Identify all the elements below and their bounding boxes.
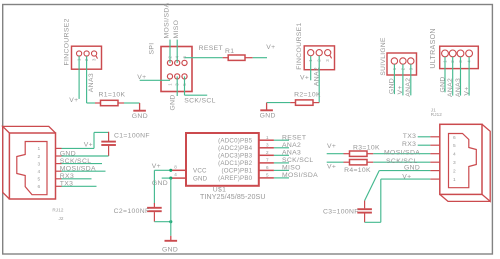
svg-text:V+: V+ (266, 44, 275, 51)
svg-text:7: 7 (266, 158, 269, 163)
svg-text:RX3: RX3 (60, 173, 74, 180)
svg-text:R4=10K: R4=10K (344, 167, 371, 174)
svg-text:MOSI/SDA: MOSI/SDA (384, 150, 420, 157)
svg-text:C1=100NF: C1=100NF (114, 133, 150, 140)
svg-text:SPI: SPI (149, 42, 156, 54)
svg-text:(OCP)PB1: (OCP)PB1 (221, 168, 252, 175)
svg-text:8: 8 (174, 164, 177, 169)
svg-text:ULTRASON: ULTRASON (430, 28, 437, 68)
svg-text:V+: V+ (397, 85, 404, 94)
svg-text:RJ12: RJ12 (431, 112, 442, 117)
svg-text:TX3: TX3 (403, 133, 417, 140)
svg-text:GND: GND (389, 78, 396, 94)
svg-text:3: 3 (266, 142, 269, 147)
svg-text:C2=100NF: C2=100NF (114, 208, 150, 215)
svg-text:1: 1 (266, 135, 269, 140)
svg-text:MOSI/SDA: MOSI/SDA (163, 2, 170, 38)
svg-text:FINCOURSE1: FINCOURSE1 (296, 22, 303, 69)
svg-text:MISO: MISO (282, 165, 301, 172)
svg-text:R1=10K: R1=10K (99, 92, 126, 99)
svg-text:MOSI/SDA: MOSI/SDA (282, 172, 318, 179)
svg-text:R3=10K: R3=10K (353, 145, 380, 152)
svg-text:ANA3: ANA3 (88, 73, 95, 92)
svg-text:SCK/SCL: SCK/SCL (184, 97, 216, 104)
svg-text:V+: V+ (137, 74, 146, 81)
svg-text:(AREF)PB0: (AREF)PB0 (218, 175, 252, 182)
svg-text:2: 2 (38, 154, 41, 160)
svg-text:ANA3: ANA3 (282, 149, 301, 156)
svg-text:2: 2 (266, 150, 269, 155)
svg-text:(ADC3)PB3: (ADC3)PB3 (218, 153, 252, 160)
svg-text:V+: V+ (463, 86, 470, 95)
svg-text:6: 6 (38, 184, 41, 190)
svg-text:VCC: VCC (193, 168, 207, 175)
svg-text:3: 3 (38, 161, 41, 167)
svg-text:4: 4 (453, 152, 456, 158)
svg-text:R2=10K: R2=10K (294, 92, 321, 99)
svg-text:RJ12: RJ12 (52, 208, 63, 213)
svg-text:4: 4 (174, 172, 177, 177)
svg-text:V+: V+ (327, 143, 336, 150)
svg-text:C3=100NF: C3=100NF (323, 209, 359, 216)
svg-text:5: 5 (453, 143, 456, 149)
svg-text:(ADC2)PB4: (ADC2)PB4 (218, 145, 252, 152)
svg-text:1: 1 (38, 146, 41, 152)
svg-text:GND: GND (60, 150, 76, 157)
svg-text:MOSI/SDA: MOSI/SDA (60, 166, 96, 173)
svg-text:GND: GND (404, 164, 420, 171)
svg-text:GND: GND (439, 76, 446, 92)
svg-text:ANA2: ANA2 (405, 78, 412, 97)
svg-text:6: 6 (266, 165, 269, 170)
svg-text:ANA3: ANA3 (455, 78, 462, 97)
svg-text:ANA2: ANA2 (282, 142, 301, 149)
svg-text:SCK/SCL: SCK/SCL (282, 157, 314, 164)
svg-text:GND: GND (162, 246, 178, 253)
svg-text:R1: R1 (225, 48, 234, 55)
svg-text:V+: V+ (402, 173, 411, 180)
svg-text:ANA2: ANA2 (447, 78, 454, 97)
svg-text:2: 2 (453, 169, 456, 175)
svg-text:V+: V+ (300, 74, 309, 81)
svg-text:RX3: RX3 (402, 141, 416, 148)
svg-text:MISO: MISO (173, 20, 180, 39)
svg-text:GND: GND (170, 94, 177, 110)
svg-text:SCK/SCL: SCK/SCL (60, 158, 92, 165)
svg-text:RESET: RESET (282, 134, 306, 141)
svg-text:V+: V+ (69, 97, 78, 104)
svg-text:1: 1 (453, 177, 456, 183)
svg-text:5: 5 (38, 177, 41, 183)
svg-text:GND: GND (193, 175, 208, 182)
svg-text:V+: V+ (84, 141, 93, 148)
svg-text:SUIVLIGNE: SUIVLIGNE (380, 37, 387, 76)
svg-text:4: 4 (38, 169, 41, 175)
svg-text:TX3: TX3 (60, 181, 74, 188)
svg-text:GND: GND (132, 113, 148, 120)
svg-text:V+: V+ (327, 164, 336, 171)
svg-text:6: 6 (453, 135, 456, 141)
svg-text:GND: GND (260, 112, 276, 119)
svg-text:TINY25/45/85-20SU: TINY25/45/85-20SU (200, 193, 266, 201)
svg-text:3: 3 (453, 160, 456, 166)
svg-text:GND: GND (152, 180, 168, 187)
svg-text:(ADC1)PB2: (ADC1)PB2 (218, 160, 252, 167)
svg-text:V+: V+ (152, 163, 161, 170)
svg-text:J2: J2 (58, 216, 63, 221)
svg-text:ANA2: ANA2 (313, 67, 320, 86)
svg-text:5: 5 (266, 173, 269, 178)
svg-text:RESET: RESET (199, 45, 223, 52)
svg-text:(ADC0)PB5: (ADC0)PB5 (218, 137, 252, 144)
svg-text:FINCOURSE2: FINCOURSE2 (63, 18, 70, 65)
